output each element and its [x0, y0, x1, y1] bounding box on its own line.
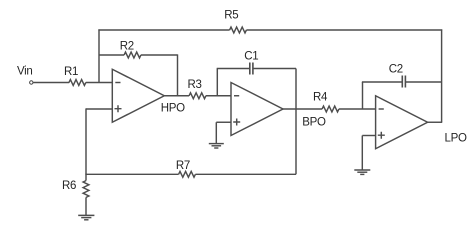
- wire R7 right segment: [195, 173, 296, 175]
- wire R2 right segment: [141, 54, 178, 56]
- wire C1 right segment: [253, 68, 296, 70]
- svg-text:C2: C2: [389, 64, 403, 76]
- svg-text:HPO: HPO: [161, 103, 185, 115]
- wire U3 output (node LPO): [427, 121, 442, 123]
- capacitor C2: [402, 76, 405, 88]
- wire U1 output to R3 (node HPO): [164, 95, 189, 97]
- wire C2 left segment: [362, 81, 402, 83]
- svg-text:Vin: Vin: [17, 66, 33, 78]
- resistor R7: [179, 171, 196, 177]
- svg-text:R1: R1: [64, 66, 78, 78]
- wire R6 to ground: [85, 197, 87, 215]
- resistor R3: [189, 93, 206, 99]
- resistor R4: [322, 106, 339, 112]
- wire R1 to U1 inverting input: [86, 82, 113, 84]
- resistor R6: [83, 181, 89, 198]
- wire U2 plus to ground: [215, 122, 217, 144]
- wire U2 plus input: [216, 121, 231, 123]
- wire U1 plus input: [86, 108, 112, 110]
- op-amp U1: [112, 69, 164, 122]
- wire C2 left vertical: [362, 82, 364, 109]
- svg-text:BPO: BPO: [302, 117, 326, 129]
- svg-text:R4: R4: [313, 92, 328, 104]
- op-amp U3: [376, 96, 428, 149]
- svg-text:R5: R5: [224, 10, 238, 22]
- wire C1 left vertical: [216, 69, 218, 96]
- ground (U3 non-inverting): [354, 170, 370, 174]
- capacitor C1: [250, 63, 253, 75]
- wire U3 plus to ground: [361, 136, 363, 171]
- wire C1 left segment: [217, 68, 250, 70]
- wire plus input down to R6/R7 node: [85, 108, 87, 174]
- node A vertical (inverting input junction): [98, 29, 100, 82]
- wire R7 left segment: [85, 173, 178, 175]
- wire U2 output to R4 (node BPO): [283, 108, 323, 110]
- wire R2 left segment: [99, 54, 124, 56]
- svg-text:R6: R6: [62, 180, 76, 192]
- wire R3 to U2 inverting input: [206, 95, 231, 97]
- wire U3 plus input: [362, 135, 375, 137]
- input terminal Vin: [30, 81, 33, 84]
- ground (R6): [78, 215, 94, 219]
- wire R5 right segment: [246, 29, 442, 31]
- ground (U2 non-inverting): [209, 144, 224, 148]
- svg-text:R2: R2: [120, 41, 134, 53]
- wire C2 right segment: [405, 81, 441, 83]
- wire R4 to U3 inverting input: [339, 108, 376, 110]
- wire LPO feedback vertical: [441, 29, 443, 122]
- resistor R2: [124, 52, 141, 58]
- svg-text:C1: C1: [244, 51, 258, 63]
- wire node to R6: [85, 174, 87, 181]
- svg-text:R7: R7: [176, 160, 190, 172]
- resistor R1: [69, 80, 86, 86]
- wire R5 left segment: [98, 29, 229, 31]
- op-amp U2: [231, 83, 283, 136]
- svg-text:LPO: LPO: [445, 133, 467, 145]
- wire R2 to HPO node vertical: [177, 54, 179, 95]
- svg-text:R3: R3: [188, 79, 202, 91]
- wire Vin to R1: [33, 82, 69, 84]
- wire BPO feedback vertical: [295, 69, 297, 175]
- resistor R5: [230, 27, 247, 33]
